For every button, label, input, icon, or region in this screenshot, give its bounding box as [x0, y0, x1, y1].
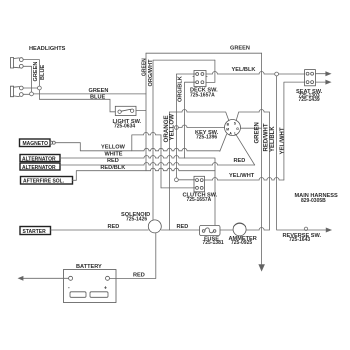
wire blue horizontal to light switch	[39, 90, 115, 112]
svg-text:RED: RED	[133, 272, 145, 278]
svg-text:ORG/WHT: ORG/WHT	[148, 59, 154, 87]
wire red from alternator to key L diagonal	[60, 163, 255, 166]
clutch switch connector	[194, 176, 205, 192]
svg-text:RED/WHT: RED/WHT	[264, 123, 270, 151]
svg-text:ALTERNATOR: ALTERNATOR	[22, 165, 56, 171]
wire yel/blk vertical to reverse switch	[277, 76, 327, 230]
battery	[64, 270, 117, 303]
wire yellow vertical	[169, 112, 171, 230]
wire red/blk from afterfire	[73, 168, 216, 180]
svg-text:YEL/BLK: YEL/BLK	[270, 126, 276, 152]
svg-text:MAGNETO: MAGNETO	[23, 141, 49, 147]
wire deck bottom-left pin down	[185, 82, 196, 158]
svg-text:AFTERFIRE SOL.: AFTERFIRE SOL.	[23, 179, 65, 185]
svg-text:725-1381: 725-1381	[203, 240, 224, 246]
svg-text:RED: RED	[177, 224, 189, 230]
svg-text:GREEN: GREEN	[33, 62, 39, 82]
svg-text:725-1657A: 725-1657A	[187, 197, 212, 203]
svg-text:GREEN: GREEN	[230, 45, 250, 51]
svg-text:725-1643: 725-1643	[289, 237, 310, 243]
wire yel/blk from deck switch to seat switch	[206, 72, 275, 75]
wire battery positive to solenoid	[110, 233, 156, 279]
svg-text:YEL/WHT: YEL/WHT	[229, 173, 255, 179]
svg-text:829-0305B: 829-0305B	[301, 198, 326, 204]
svg-text:YELLOW: YELLOW	[168, 114, 175, 141]
wire battery negative to chassis	[23, 277, 69, 279]
node yel/wht junction on org/blk	[175, 178, 179, 182]
svg-text:GREEN: GREEN	[255, 122, 261, 143]
fuse	[200, 225, 221, 235]
svg-text:RED: RED	[107, 158, 119, 164]
wire org/wht drop to deck switch lower right pin	[206, 60, 215, 82]
wire deck drop joining white, over to fuse drop	[185, 158, 216, 225]
svg-text:725-1426: 725-1426	[126, 217, 147, 223]
node blue junction	[38, 86, 42, 90]
wire green from lamp1 bottom terminal	[23, 66, 31, 92]
svg-text:BATTERY: BATTERY	[76, 264, 102, 270]
svg-text:725-0634: 725-0634	[114, 123, 135, 129]
ammeter	[233, 223, 246, 236]
svg-text:RED/BLK: RED/BLK	[100, 165, 125, 171]
wire from lamp2 top terminal to blue junction	[23, 87, 37, 89]
svg-text:725-1657A: 725-1657A	[190, 92, 215, 98]
alternator box 2	[20, 163, 60, 170]
headlight lamp 1	[11, 58, 24, 69]
wire light switch output riser (green)	[136, 53, 146, 171]
svg-text:ALTERNATOR: ALTERNATOR	[22, 156, 56, 162]
node reverse switch connector	[304, 227, 307, 230]
node yel/blk junction	[275, 72, 279, 76]
wire clutch bottom to orange	[161, 187, 195, 189]
svg-text:HEADLIGHTS: HEADLIGHTS	[29, 46, 66, 52]
wire orange vertical	[160, 135, 162, 188]
headlight lamp 2	[11, 86, 24, 97]
magneto box	[20, 139, 51, 147]
wire blue from lamp1 top terminal	[23, 60, 39, 87]
wire red solenoid to fuse	[161, 229, 199, 231]
svg-text:YEL/WHT: YEL/WHT	[280, 127, 286, 154]
wire green horizontal to light switch riser	[33, 93, 146, 95]
wire key feed y112 from org/blk to red/wht vertical	[170, 110, 270, 121]
svg-text:ORG/BLK: ORG/BLK	[178, 76, 184, 102]
svg-text:G: G	[236, 127, 239, 131]
reverse switch arrow	[326, 228, 331, 232]
svg-text:GREEN: GREEN	[141, 58, 147, 76]
wire key feed y127.5 from connector node	[175, 126, 179, 130]
svg-text:725-1396: 725-1396	[196, 135, 217, 141]
wire yel/wht vertical to seat switch	[284, 82, 305, 180]
wire green main vertical to arrow	[261, 53, 263, 264]
wire branch riser from yellow to W0	[132, 132, 161, 150]
starter box	[20, 227, 51, 235]
wire key G to green vertical	[241, 127, 262, 129]
svg-text:BLUE: BLUE	[40, 65, 46, 80]
wire from lamp2 bottom terminal to green junction	[23, 93, 30, 95]
wire ammeter to red/wht vertical	[246, 228, 269, 231]
wire deck top-left pin to org/blk vertical	[176, 74, 195, 178]
svg-text:RED: RED	[234, 158, 246, 164]
light switch LS1	[115, 106, 136, 115]
svg-text:+: +	[104, 286, 107, 292]
svg-text:RED: RED	[108, 224, 120, 230]
afterfire solenoid box	[21, 177, 73, 185]
wire key M diagonal	[220, 134, 227, 151]
deck switch connector	[193, 71, 207, 87]
svg-text:STARTER: STARTER	[23, 229, 47, 235]
wire red starter to solenoid	[51, 229, 149, 231]
magneto inline connector	[50, 141, 53, 144]
svg-text:YEL/BLK: YEL/BLK	[232, 67, 256, 73]
solenoid	[148, 220, 161, 233]
green down arrow	[259, 265, 264, 271]
alternator box 1	[20, 155, 60, 162]
wire fuse to ammeter	[220, 229, 233, 231]
svg-text:725-1439: 725-1439	[299, 97, 320, 103]
svg-text:WHITE: WHITE	[105, 152, 123, 158]
svg-text:GREEN: GREEN	[89, 88, 109, 94]
wire yellow from magneto	[55, 143, 80, 151]
svg-text:BLUE: BLUE	[90, 94, 105, 100]
wire yel/wht from junction to clutch switch	[178, 179, 194, 181]
svg-text:725-0925: 725-0925	[231, 240, 252, 246]
seat switch connector	[305, 70, 316, 86]
node green junction	[30, 92, 34, 96]
wire seat switch output arrows	[315, 73, 325, 75]
wire key L diagonal to red	[236, 134, 255, 165]
wire red/wht vertical	[268, 112, 270, 230]
wire green top horizontal	[146, 52, 262, 54]
wire org/wht top horizontal and vertical to solenoid	[153, 60, 215, 220]
svg-text:YELLOW: YELLOW	[101, 145, 126, 151]
wire white from alternator	[60, 156, 185, 159]
key switch KS1	[225, 120, 241, 136]
wire yel/wht from clutch to seat switch riser	[205, 178, 284, 181]
